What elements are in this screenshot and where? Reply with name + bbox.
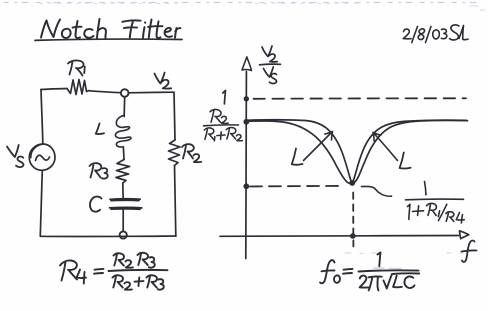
bottom node (open circle): [120, 231, 127, 238]
right wire down to R2: [174, 92, 175, 140]
circuit: left wire from source up: [41, 90, 43, 145]
tick dot at level R2/(R1+R2): [243, 119, 249, 125]
x-axis label f: [462, 240, 477, 261]
response curve: wide notch (large L): [247, 120, 468, 183]
wire R3 to capacitor: [122, 183, 124, 198]
y-axis arrowhead (open): [242, 57, 252, 71]
label L (left curve) with arrow: [292, 132, 333, 165]
label 1/(1+R1/R4): [406, 182, 465, 224]
wire below R2 to bottom-right corner: [175, 166, 176, 237]
wire node V2 down to inductor: [123, 97, 126, 117]
y-axis label V2/Vs: [260, 46, 281, 84]
tick dot at level 1: [244, 96, 249, 101]
resistor R3 zigzag: [116, 160, 130, 184]
scan artifact: faint dotted top edge: [4, 2, 484, 4]
x-axis arrowhead (open): [460, 231, 469, 239]
wire node to top-right corner: [129, 91, 175, 94]
date 2/8/03 SL: [403, 25, 468, 43]
capacitor C bottom plate: [110, 207, 142, 209]
formula R4 = R2R3/(R2+R3): [60, 253, 168, 290]
scan artifact: faint dashes right-mid: [345, 252, 463, 255]
dip dot: [349, 180, 355, 186]
label 1 (unity level): [223, 90, 226, 104]
wire below source to bottom-left corner: [40, 170, 42, 236]
fraction bar f0: [359, 270, 419, 271]
wire R1 to node V2: [89, 91, 121, 93]
wire capacitor to bottom node: [122, 210, 124, 232]
graph y-axis: [245, 72, 248, 259]
top wire: corner to R1: [41, 89, 67, 90]
squiggle connector to 1/(1+R1/R4): [362, 186, 392, 196]
sine wave inside source: [36, 155, 50, 160]
dot on x-axis at f0: [350, 233, 356, 239]
graph x-axis: [220, 235, 459, 238]
voltage source VS circle: [29, 144, 55, 170]
label VS (source): [7, 145, 23, 167]
formula f0 = 1/(2 pi sqrt LC): [320, 253, 419, 291]
title: Notch Filter: [35, 19, 182, 40]
resistor R2 zigzag: [169, 140, 181, 166]
title underline: [35, 39, 182, 40]
scan artifact: faint dashes below squiggle: [374, 267, 401, 270]
wire inductor to R3: [122, 148, 125, 160]
label R2/(R1+R2): [204, 109, 243, 140]
capacitor C top plate: [110, 199, 140, 201]
label L (right curve) with arrow: [373, 133, 411, 169]
scan artifact: faint dashes top-right corner: [470, 6, 485, 10]
fraction bar R4: [109, 270, 168, 271]
node V2 (open circle): [121, 89, 129, 97]
dashed vertical at f0: [352, 193, 354, 247]
label V2 (node name): [155, 73, 172, 89]
label R1: [68, 60, 85, 75]
response curve: narrow notch (small L): [247, 120, 467, 183]
label R2 (right resistor): [182, 144, 201, 162]
tick dot at dip level: [243, 183, 249, 189]
label L (inductor): [96, 124, 104, 135]
dashed line at dip level: [250, 185, 345, 188]
bottom wire: [40, 235, 176, 238]
resistor R1 zigzag: [67, 80, 89, 95]
label C (capacitor): [90, 197, 102, 212]
dashed line at level 1: [254, 97, 467, 100]
inductor L (scribbled coil): [115, 115, 131, 147]
label R3: [90, 163, 108, 179]
